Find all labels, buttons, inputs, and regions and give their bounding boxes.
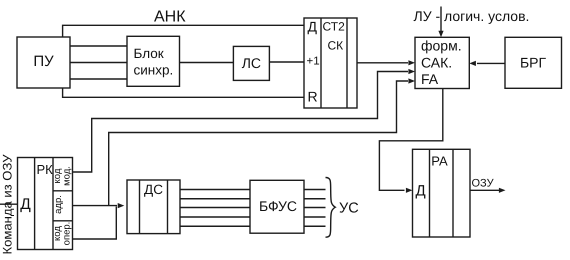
wire LU arrow down into form SAK bbox=[440, 7, 442, 32]
svg-text:СТ2: СТ2 bbox=[323, 20, 346, 34]
block sync bbox=[127, 36, 180, 86]
decoder DS box bbox=[127, 180, 180, 234]
arrowhead CT2 to form bbox=[408, 60, 415, 65]
wire PU to sync 3 bbox=[70, 78, 127, 80]
arrowhead BRG to form bbox=[469, 61, 476, 66]
svg-text:Блок: Блок bbox=[134, 46, 164, 61]
svg-text:Команда из ОЗУ: Команда из ОЗУ bbox=[1, 154, 15, 254]
svg-text:ЛС: ЛС bbox=[242, 55, 261, 71]
svg-text:БРГ: БРГ bbox=[520, 55, 547, 71]
arrowhead LU down bbox=[438, 31, 443, 38]
svg-text:УС: УС bbox=[339, 200, 359, 216]
wire BRG to form SAK bbox=[477, 62, 505, 64]
arrowhead kod-mod to form bbox=[408, 69, 415, 74]
wire sync to LS bbox=[180, 62, 234, 64]
svg-text:Д: Д bbox=[308, 19, 318, 35]
arrowhead adr to DS bbox=[118, 203, 125, 208]
wire komanda input bbox=[0, 203, 18, 205]
svg-text:+1: +1 bbox=[307, 56, 320, 68]
bus BFUS out (5 lines) bbox=[304, 189, 326, 191]
svg-text:мод.: мод. bbox=[62, 166, 73, 186]
svg-text:САК.: САК. bbox=[421, 55, 452, 71]
svg-text:ОЗУ: ОЗУ bbox=[472, 178, 495, 190]
block form SAK FA bbox=[415, 37, 469, 88]
svg-text:ПУ: ПУ bbox=[33, 53, 54, 70]
wire RA to OZU bbox=[470, 189, 502, 191]
block BFUS bbox=[250, 180, 304, 233]
wire CT2 to form SAK bbox=[357, 62, 408, 64]
svg-text:ЛУ - логич. услов.: ЛУ - логич. услов. bbox=[414, 8, 530, 24]
block LS bbox=[233, 46, 269, 80]
wire PU to sync 1 bbox=[70, 45, 127, 47]
counter CT2 box bbox=[304, 18, 357, 108]
wire adr to DS bbox=[73, 205, 118, 207]
register RA box bbox=[413, 149, 471, 237]
wire form SAK to RA D input bbox=[379, 89, 442, 191]
register RK box bbox=[18, 158, 73, 250]
bus DS to BFUS (5 lines) bbox=[180, 189, 250, 191]
arrowhead RA to OZU bbox=[499, 188, 506, 193]
arrowhead adr to form bbox=[408, 78, 415, 83]
wire adr branch to form SAK bbox=[109, 81, 408, 206]
wire kod-mod to form SAK bbox=[73, 72, 409, 173]
svg-text:Д: Д bbox=[20, 196, 31, 213]
svg-text:Д: Д bbox=[416, 183, 426, 200]
brace US bbox=[326, 178, 336, 238]
svg-text:СК: СК bbox=[328, 39, 344, 53]
wire PU to sync 2 bbox=[70, 62, 127, 64]
svg-text:опер.: опер. bbox=[62, 222, 73, 246]
svg-text:БФУС: БФУС bbox=[259, 198, 297, 214]
svg-text:РА: РА bbox=[431, 154, 448, 169]
svg-text:ДС: ДС bbox=[144, 182, 163, 197]
svg-text:FA: FA bbox=[421, 71, 439, 87]
svg-text:R: R bbox=[308, 89, 318, 105]
block BRG bbox=[505, 37, 562, 88]
svg-text:форм.: форм. bbox=[421, 38, 462, 54]
wire kod-oper join bbox=[73, 207, 117, 240]
arrowhead form to RA bbox=[406, 188, 413, 193]
block PU bbox=[17, 37, 70, 88]
svg-text:РК: РК bbox=[37, 162, 54, 177]
wire R loop: PU bottom to CT2 R input bbox=[63, 88, 304, 97]
svg-text:адр.: адр. bbox=[53, 195, 64, 214]
wire ANK: PU top to CT2 D input bbox=[63, 25, 304, 37]
svg-text:АНК: АНК bbox=[154, 9, 186, 26]
svg-text:синхр.: синхр. bbox=[134, 63, 174, 78]
wire LS to CT2 +1 input bbox=[269, 61, 304, 63]
